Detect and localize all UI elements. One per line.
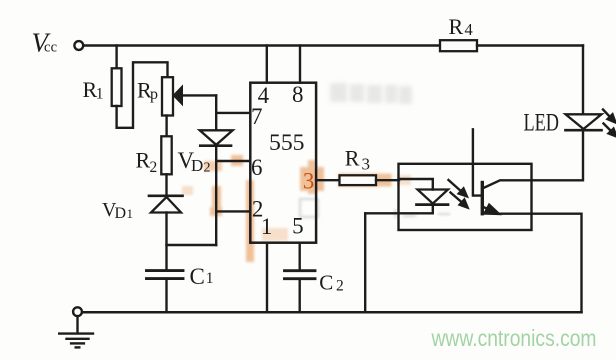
label Rp [137, 78, 158, 103]
LED light arrow 1 [603, 110, 616, 123]
diode VD1 [149, 196, 183, 213]
svg-text:LED: LED [524, 110, 560, 137]
label R1 [83, 77, 104, 103]
wire VD2 cathode stem [215, 146, 217, 245]
wire R1 bottom to Rp top link [117, 62, 168, 128]
resistor R2 [161, 136, 171, 174]
wire VD1 anode down to C1 [165, 213, 167, 271]
wire VD2 anode stem [215, 95, 217, 130]
svg-text:R: R [136, 148, 151, 173]
wire LED cathode to collector [532, 131, 584, 181]
label VD1 [102, 199, 133, 222]
wire pin 3 stub [316, 179, 339, 181]
svg-text:555: 555 [269, 130, 305, 156]
label VD2 [178, 148, 211, 176]
diode VD2 [200, 130, 233, 145]
opto light arrow 2 [451, 193, 468, 208]
label R2 [136, 148, 158, 177]
wire C2 bottom [299, 279, 301, 313]
optocoupler box [399, 164, 532, 230]
wire pin 2 stub [216, 210, 250, 212]
wire pin 4 stem [266, 46, 268, 83]
svg-text:cc: cc [44, 40, 57, 56]
label C2 [319, 270, 343, 294]
wire emitter to bottom rail [532, 214, 582, 313]
label C1 [190, 264, 214, 289]
transistor Q1 base bar [481, 183, 484, 214]
wire pin 6 stub [216, 160, 250, 162]
wire pin 8 stem [299, 46, 301, 83]
svg-text:R: R [449, 14, 464, 39]
watermark grey marks [276, 199, 462, 219]
svg-text:www.cntronics.com: www.cntronics.com [431, 325, 597, 351]
label R3 [345, 145, 370, 173]
svg-text:2: 2 [150, 159, 158, 176]
svg-text:C: C [190, 264, 205, 289]
wire cathode to bottom rail [364, 213, 366, 312]
resistor R3 [340, 175, 377, 185]
wire wiper to VD2 branch [181, 94, 216, 96]
svg-text:6: 6 [251, 155, 263, 180]
svg-text:1: 1 [206, 270, 214, 287]
svg-text:1: 1 [127, 206, 134, 221]
opto light arrow 1 [449, 180, 467, 196]
watermark orange smudges [182, 155, 411, 262]
resistor R4 [440, 40, 477, 51]
Rp wiper arrow [174, 87, 182, 103]
watermark grey ghost text top [330, 83, 412, 104]
label Vcc [32, 28, 58, 58]
capacitor C1 [147, 271, 184, 279]
opto photodiode [417, 190, 449, 205]
svg-text:D: D [115, 205, 127, 222]
svg-text:2: 2 [204, 161, 211, 176]
wire R2 to VD1 [165, 174, 167, 195]
LED diode [566, 114, 602, 130]
wire junction VD1-VD2 bottom link [167, 244, 217, 246]
svg-text:7: 7 [251, 104, 263, 129]
node Vcc terminal [74, 41, 83, 50]
wire top rail right [477, 44, 583, 46]
wire pin 5 stem [299, 243, 301, 271]
wire C1 bottom [165, 279, 167, 313]
node ground terminal [73, 307, 82, 316]
svg-text:D: D [191, 156, 203, 175]
svg-text:2: 2 [336, 278, 344, 295]
svg-text:3: 3 [303, 169, 315, 194]
potentiometer Rp [162, 77, 173, 115]
svg-text:8: 8 [292, 82, 304, 107]
capacitor C2 [285, 271, 316, 279]
svg-text:R: R [345, 145, 360, 170]
LED light arrow 2 [604, 124, 616, 137]
wire R3 to optocoupler [376, 179, 399, 181]
ground [59, 316, 93, 347]
svg-text:1: 1 [96, 86, 104, 103]
wire pin 1 stem [266, 243, 268, 313]
wire R1 top stem [115, 46, 117, 69]
wire right drop to LED [582, 46, 584, 115]
wire top rail left [84, 44, 440, 46]
wire bottom rail [82, 311, 581, 314]
wire pin 7 stub [216, 112, 250, 114]
svg-text:5: 5 [292, 213, 304, 238]
svg-text:3: 3 [362, 155, 371, 174]
wire opto cathode return [365, 205, 433, 214]
transistor Q1 collector [482, 180, 531, 188]
wire opto anode input [399, 179, 433, 190]
op-amp U1 555 box [250, 83, 316, 243]
resistor R1 [112, 68, 122, 106]
wire Rp bottom stem [165, 116, 167, 137]
svg-text:1: 1 [261, 214, 273, 239]
transistor Q1 base stem [473, 129, 481, 195]
svg-text:p: p [150, 86, 158, 103]
label R4 [449, 14, 473, 39]
svg-text:C: C [319, 270, 333, 294]
svg-text:4: 4 [465, 20, 473, 39]
transistor Q1 emitter [482, 205, 531, 214]
